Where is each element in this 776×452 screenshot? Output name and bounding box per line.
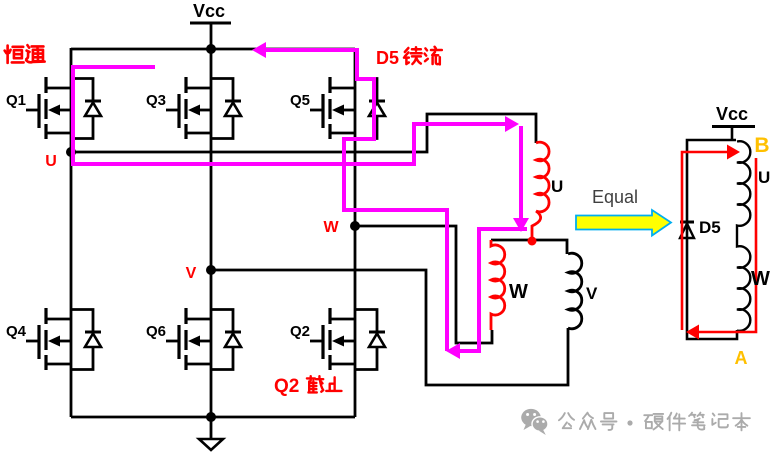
svg-text:Q1: Q1: [6, 92, 26, 109]
inductor W winding (red): [491, 240, 505, 330]
wire U phase to motor: [71, 114, 536, 152]
svg-text:U: U: [45, 153, 57, 170]
arrow magenta down: [513, 218, 529, 232]
watermark text 公众号·硬件笔记本: [559, 413, 750, 431]
svg-text:Q6: Q6: [146, 323, 166, 340]
wire magenta into U winding: [519, 126, 523, 220]
wire magenta Q1 stub: [73, 67, 508, 164]
svg-text:Q5: Q5: [290, 92, 310, 109]
svg-text:Q4: Q4: [6, 323, 27, 340]
bottom rail: [71, 416, 355, 419]
wire magenta star to W: [455, 229, 527, 351]
svg-text:Vcc: Vcc: [716, 104, 748, 124]
wire W phase to motor: [355, 226, 492, 343]
svg-text:W: W: [509, 281, 528, 303]
node Vcc junction: [206, 44, 216, 54]
wire magenta W up to D5: [264, 50, 447, 351]
svg-text:W: W: [751, 268, 770, 290]
wire right loop: [687, 140, 737, 339]
inductor V winding (black): [568, 253, 582, 329]
diode D5 (right): [680, 221, 694, 224]
svg-text:D5: D5: [699, 218, 721, 237]
inductor U winding (red): [536, 142, 549, 212]
ground: [210, 417, 213, 439]
node U: [66, 147, 76, 157]
node star point: [528, 237, 537, 246]
svg-text:Equal: Equal: [592, 187, 638, 207]
transistor Q2: [310, 308, 385, 370]
arrow red left: [686, 325, 699, 340]
label 恒通 (red): [5, 45, 45, 63]
transistor Q5: [310, 77, 385, 139]
node bottom junction: [206, 412, 216, 422]
transistor Q6: [166, 308, 241, 370]
arrow magenta right: [505, 116, 519, 132]
Vcc power bar: [190, 22, 231, 25]
watermark wechat icon: [521, 409, 548, 435]
node V: [206, 265, 216, 275]
arrow magenta left (W exit): [446, 343, 460, 359]
svg-text:V: V: [586, 284, 598, 303]
wire middle column (Q3/Q6 main line): [210, 48, 213, 417]
transistor Q1: [26, 77, 101, 139]
red loop: [682, 152, 756, 332]
svg-text:U: U: [551, 177, 563, 196]
wire Vcc stem: [210, 23, 213, 49]
Vcc label: [190, 1, 231, 49]
svg-text:Vcc: Vcc: [193, 1, 225, 21]
wire right column (Q5/Q2 main line): [354, 48, 357, 417]
svg-text:Q3: Q3: [146, 92, 166, 109]
transistor Q3: [166, 77, 241, 139]
arrow red right: [727, 145, 740, 160]
svg-text:B: B: [754, 134, 769, 157]
arrow magenta left (rail): [252, 42, 266, 58]
transistor Q4: [26, 308, 101, 370]
svg-text:Q2: Q2: [274, 376, 299, 397]
wire star row: [491, 240, 567, 254]
wire left column (Q1/Q4 main line): [70, 48, 73, 417]
wire V phase to motor: [211, 270, 568, 385]
svg-text:Q2: Q2: [290, 323, 310, 340]
wire top rail: [71, 48, 355, 51]
inductor right U+W winding: [737, 141, 750, 331]
node W: [350, 221, 360, 231]
svg-text:U: U: [758, 168, 770, 187]
svg-text:W: W: [323, 219, 339, 236]
svg-text:V: V: [186, 265, 197, 282]
svg-text:A: A: [735, 348, 748, 368]
svg-text:D5: D5: [376, 48, 399, 68]
